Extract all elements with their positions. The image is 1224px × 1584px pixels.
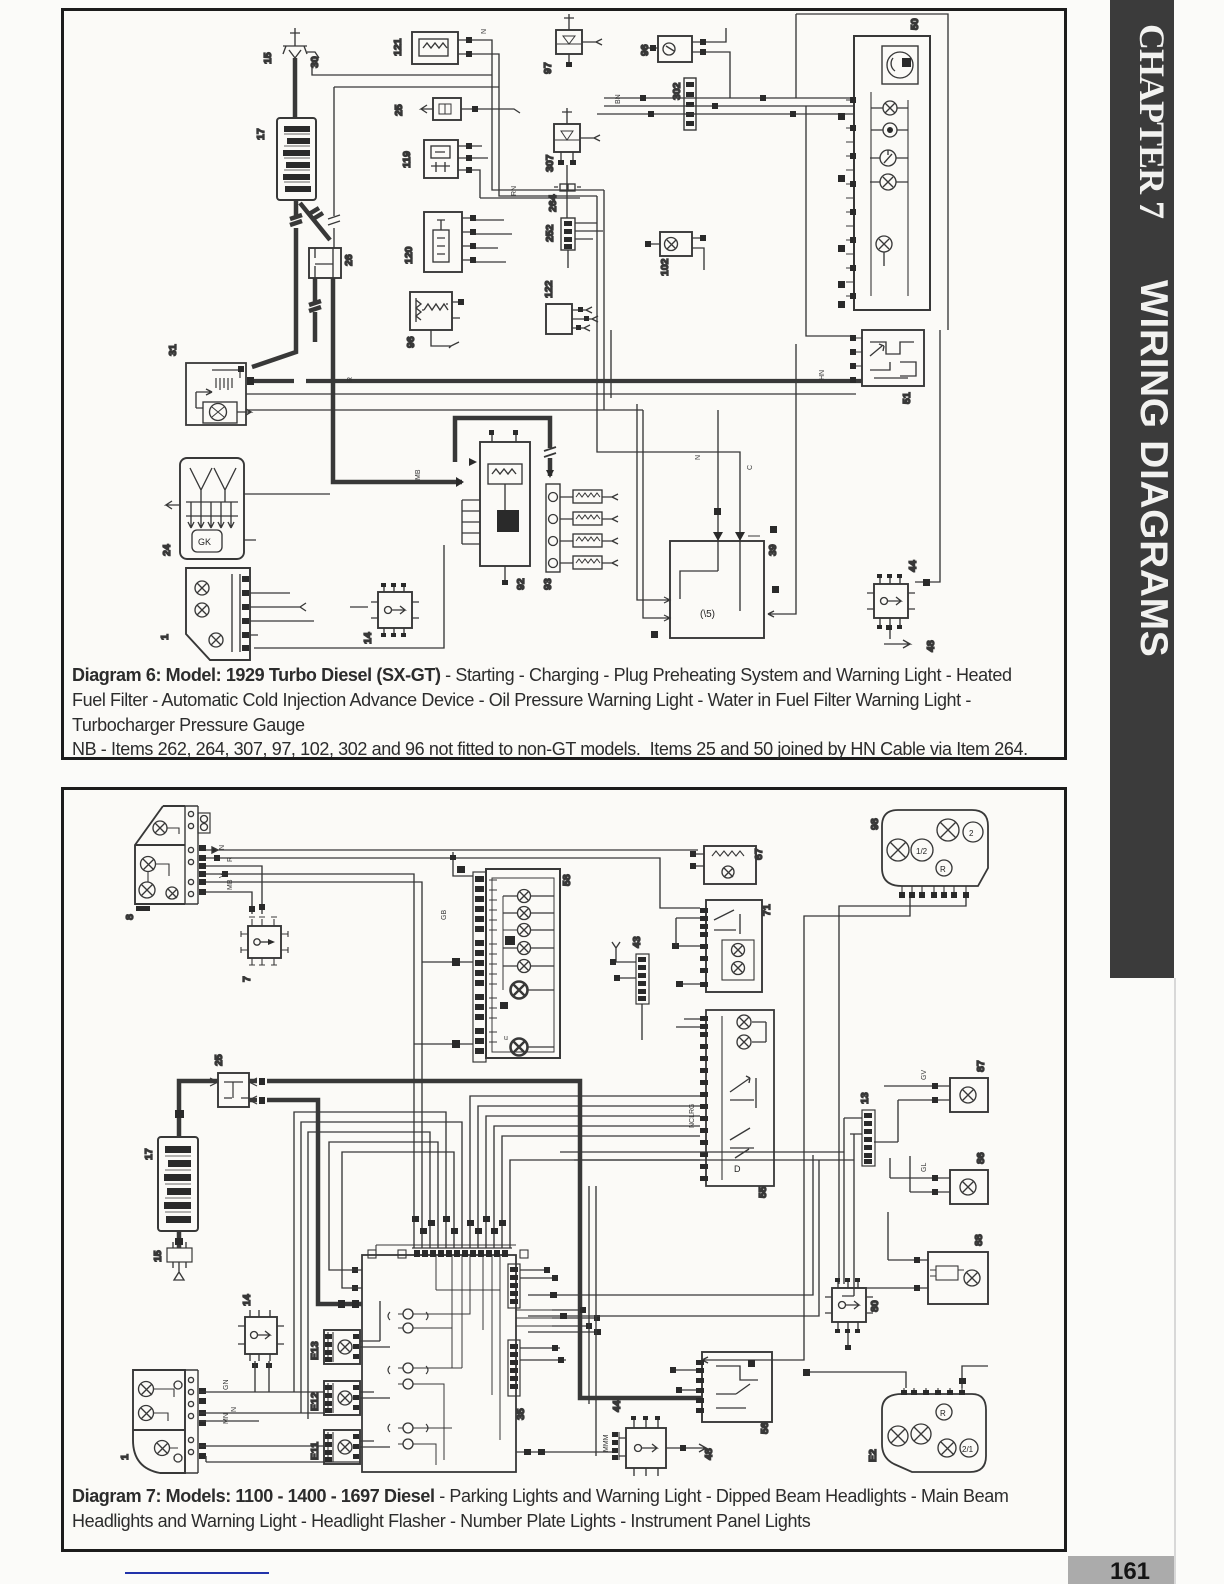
svg-text:14: 14 <box>362 632 374 644</box>
sensor 119 <box>424 140 580 198</box>
resistor 96 <box>410 292 464 348</box>
relay unit 88 <box>839 1212 988 1304</box>
earth arrow 48 <box>884 625 910 648</box>
rear light cluster 1 <box>133 1370 206 1473</box>
svg-text:55: 55 <box>757 1186 769 1198</box>
svg-text:GN: GN <box>223 1380 230 1391</box>
dip lamp 86 <box>890 1156 988 1204</box>
svg-text:N: N <box>481 29 488 34</box>
thick feed 25 to 35 <box>249 1097 362 1308</box>
svg-text:96: 96 <box>639 44 651 56</box>
instrument panel 58 <box>473 869 560 1062</box>
long cross wires right <box>560 1140 854 1160</box>
wire loop inner <box>806 106 856 336</box>
wire E11 to fuses <box>360 1441 390 1447</box>
wire nest riser 1 <box>294 1112 446 1392</box>
wires into 55 <box>676 1019 700 1128</box>
svg-text:31: 31 <box>167 344 179 356</box>
svg-text:96: 96 <box>405 336 417 348</box>
svg-text:V: V <box>219 873 226 878</box>
wire 122 to 39 <box>597 190 740 541</box>
svg-text:121: 121 <box>392 38 404 56</box>
headlight unit E2 <box>882 1388 986 1472</box>
riser d <box>470 1096 700 1248</box>
glow plug W1 <box>560 490 618 503</box>
svg-text:252: 252 <box>544 224 556 242</box>
svg-text:50: 50 <box>909 18 921 30</box>
svg-text:43: 43 <box>631 936 643 948</box>
relay 121 <box>412 32 472 64</box>
panel inner wire <box>503 896 518 990</box>
bottom diagram box <box>61 787 1067 1552</box>
panel lamp P5 <box>503 960 554 973</box>
svg-text:15: 15 <box>152 1250 164 1262</box>
svg-text:307: 307 <box>544 154 556 172</box>
relay 44 <box>603 1416 666 1476</box>
wire code labels <box>223 1380 238 1425</box>
column switch 55 <box>700 1010 774 1186</box>
instrument lamp 67 <box>690 846 756 884</box>
battery 17 <box>277 118 316 200</box>
wires out right of 35 lower <box>516 1155 819 1455</box>
cluster lamp L2 <box>871 123 908 137</box>
relay 14 <box>238 1310 284 1392</box>
scan edge <box>1174 978 1176 1584</box>
bus wire 3 <box>246 409 643 411</box>
svg-text:120: 120 <box>403 246 415 264</box>
wire 8 to relay 7 <box>206 866 265 914</box>
wire code labels <box>219 845 234 890</box>
panel lamp P1 <box>503 890 554 903</box>
chapter sidebar <box>1110 0 1174 978</box>
wire riser 51 to 44 <box>915 330 940 582</box>
wire 8 to 71 <box>206 855 700 908</box>
svg-text:44: 44 <box>907 560 919 572</box>
wire 26 down <box>309 278 333 342</box>
wire 8 drop A <box>206 871 414 1248</box>
riser g <box>494 1126 700 1248</box>
cluster pins <box>846 97 856 299</box>
diode unit 307 <box>554 108 600 165</box>
wire 8 to relay 7 pin2 <box>206 892 255 914</box>
svg-text:NCLRG: NCLRG <box>689 1103 696 1128</box>
wire battery to 26 <box>290 200 330 256</box>
headlight unit 98 <box>882 810 988 898</box>
wire fuse branch B <box>328 87 499 248</box>
fuse box 35 <box>362 1245 516 1472</box>
svg-text:102: 102 <box>659 258 671 276</box>
svg-text:67: 67 <box>753 848 765 860</box>
connector 252 <box>561 218 603 268</box>
fuse box top connector <box>368 1248 528 1258</box>
svg-text:122: 122 <box>543 280 555 298</box>
svg-text:264: 264 <box>547 194 559 212</box>
panel lamp P3 <box>518 924 555 937</box>
svg-text:HN: HN <box>819 370 826 380</box>
front light cluster 8 <box>135 806 210 911</box>
svg-text:MB: MB <box>227 879 234 890</box>
svg-text:2: 2 <box>969 829 974 838</box>
svg-text:48: 48 <box>925 640 937 652</box>
svg-text:1: 1 <box>159 634 171 640</box>
wire 121 right <box>472 40 604 196</box>
connector E13 <box>324 1330 360 1364</box>
svg-text:25: 25 <box>393 104 405 116</box>
svg-text:N: N <box>695 455 702 460</box>
fuse box inner wires <box>421 1256 500 1465</box>
svg-text:80: 80 <box>869 1300 881 1312</box>
relay 80 <box>825 1278 873 1350</box>
svg-text:48: 48 <box>703 1448 715 1460</box>
wire 1 to 14 <box>250 593 368 621</box>
glow plug W2 <box>560 512 618 525</box>
riser e <box>478 1106 700 1248</box>
glow plug W4 <box>560 556 618 569</box>
svg-text:E12: E12 <box>309 1392 321 1411</box>
connector E11 <box>324 1430 360 1464</box>
thick feed to item 31 <box>252 256 296 367</box>
relay 44 <box>867 574 930 629</box>
wire nest riser 3 <box>308 1132 430 1419</box>
wire E12 to fuses <box>360 1392 390 1398</box>
cluster lamp L4 <box>870 174 908 190</box>
glow plug unit 24 <box>166 458 330 559</box>
svg-text:71: 71 <box>761 904 773 916</box>
svg-text:17: 17 <box>255 128 267 140</box>
svg-text:MN: MN <box>223 1413 230 1424</box>
svg-text:R: R <box>940 1409 946 1418</box>
long verticals mid <box>589 1186 596 1456</box>
fuse box right connectors <box>508 1264 520 1396</box>
svg-text:GV: GV <box>921 1070 928 1080</box>
svg-text:44: 44 <box>611 1400 623 1412</box>
riser h <box>502 1136 700 1248</box>
svg-text:C: C <box>747 465 754 470</box>
svg-text:GL: GL <box>921 1163 928 1172</box>
panel feed mid <box>422 958 473 966</box>
switch unit 71 <box>672 900 762 992</box>
wire 26 to 92 feed <box>333 340 464 487</box>
riser f <box>486 1116 700 1248</box>
relay 14 <box>371 583 419 637</box>
fuse box left pins <box>352 1267 362 1291</box>
panel lamp P2 <box>503 907 554 920</box>
svg-text:1: 1 <box>119 1454 131 1460</box>
svg-text:24: 24 <box>161 544 173 556</box>
panel marker <box>505 936 515 945</box>
wire codes <box>347 29 826 480</box>
svg-text:51: 51 <box>901 392 913 404</box>
nested loop b <box>342 1152 454 1288</box>
svg-text:13: 13 <box>859 1092 871 1104</box>
svg-text:17: 17 <box>143 1148 155 1160</box>
svg-text:E13: E13 <box>309 1341 321 1360</box>
relay unit 51 <box>850 330 924 386</box>
thick feed 25 to right <box>249 1078 702 1398</box>
page number <box>1068 1556 1174 1584</box>
svg-text:7: 7 <box>241 976 253 982</box>
svg-text:88: 88 <box>973 1234 985 1246</box>
svg-text:u: u <box>504 1035 508 1042</box>
blue underline mark <box>125 1572 269 1574</box>
wire riser to 39 <box>768 344 796 617</box>
connector 13 <box>842 1110 875 1296</box>
svg-text:2/1: 2/1 <box>962 1445 974 1454</box>
wire 98 right drop <box>839 898 966 1284</box>
wire riser 39 pin <box>714 410 721 541</box>
svg-text:26: 26 <box>343 254 355 266</box>
wire nest riser 2 <box>301 1122 462 1413</box>
wires out right of 35 upper <box>516 1267 600 1329</box>
svg-text:92: 92 <box>515 578 527 590</box>
cluster feed markers <box>838 113 845 308</box>
svg-text:58: 58 <box>561 874 573 886</box>
riser i <box>510 1160 700 1248</box>
cluster lamp L3 <box>870 150 908 166</box>
svg-text:R: R <box>347 377 354 382</box>
diode 97 <box>556 14 602 67</box>
fuse pair F1 <box>388 1309 428 1333</box>
svg-text:39: 39 <box>767 544 779 556</box>
heater unit 92 <box>462 430 530 585</box>
svg-text:87: 87 <box>975 1060 987 1072</box>
switch 96 <box>648 28 730 98</box>
fuse link 15 <box>167 1231 192 1280</box>
wire 1 to connectors <box>199 1392 360 1462</box>
main bus wire <box>247 377 862 385</box>
svg-text:GB: GB <box>441 910 448 920</box>
panel feed low <box>414 1040 473 1048</box>
bus wire 2 <box>246 393 856 395</box>
fuse pair F3 <box>388 1423 428 1449</box>
svg-text:1/2: 1/2 <box>916 847 928 856</box>
svg-text:56: 56 <box>759 1422 771 1434</box>
thick loop to 92 <box>455 418 556 478</box>
connector 43 <box>610 942 649 1040</box>
cluster lamp L1 <box>871 101 908 115</box>
panel lamp P6 <box>500 982 554 1010</box>
svg-text:MB: MB <box>415 469 422 480</box>
top diagram box <box>61 8 1067 760</box>
switch 25 <box>421 98 520 120</box>
flasher unit 56 <box>670 1352 772 1422</box>
svg-text:97: 97 <box>542 62 554 74</box>
bus wires to cluster <box>597 95 854 117</box>
panel feed top <box>450 852 473 876</box>
wire 98 left drop <box>702 898 910 1363</box>
svg-text:R: R <box>227 857 234 862</box>
svg-text:D: D <box>734 1164 741 1174</box>
svg-text:E11: E11 <box>309 1442 321 1460</box>
panel lamp P7 <box>504 1035 554 1056</box>
svg-text:N: N <box>231 1407 238 1412</box>
svg-text:GK: GK <box>198 537 211 547</box>
svg-text:14: 14 <box>241 1294 253 1306</box>
svg-text:30: 30 <box>309 56 321 68</box>
sensor 120 <box>424 212 512 272</box>
starter motor 1 <box>186 568 250 660</box>
wire to 39 left <box>637 404 661 618</box>
svg-text:(\5): (\5) <box>700 609 715 620</box>
control unit 31 <box>186 363 251 425</box>
svg-text:MMM: MMM <box>603 1434 610 1452</box>
svg-text:119: 119 <box>401 151 413 168</box>
relay 26 <box>309 248 341 278</box>
earth arrow 48 <box>666 1444 706 1452</box>
svg-text:BN: BN <box>615 94 622 104</box>
wire lower run <box>250 545 444 648</box>
control box 122 <box>546 304 598 334</box>
svg-text:E2: E2 <box>867 1449 879 1462</box>
glow plug W3 <box>560 534 618 547</box>
relay 7 <box>241 917 288 965</box>
dip lamp 87 <box>874 1070 988 1142</box>
wire code markers <box>412 1216 506 1234</box>
svg-text:98: 98 <box>869 818 881 830</box>
wire loop outer <box>796 14 948 330</box>
cluster lamp L5 <box>876 236 892 266</box>
wire E2 feeds <box>803 1366 988 1388</box>
connector 302 <box>684 78 696 130</box>
relay box 39 <box>651 526 779 638</box>
svg-text:93: 93 <box>542 578 554 590</box>
wire fuse branch A <box>312 66 492 75</box>
connector E12 <box>324 1381 360 1415</box>
svg-text:R: R <box>940 865 946 874</box>
svg-text:RN: RN <box>511 186 518 196</box>
lighting switch 25 <box>210 1073 257 1107</box>
wire 8 to 67 <box>206 847 698 853</box>
svg-text:35: 35 <box>515 1408 527 1420</box>
fuse pair F2 <box>388 1363 428 1389</box>
wire E13 to fuses <box>360 1301 390 1347</box>
battery 17 <box>158 1137 198 1231</box>
fuse 15 <box>283 28 319 118</box>
svg-text:N: N <box>219 845 226 850</box>
svg-text:15: 15 <box>262 52 274 64</box>
warning lamp 102 <box>645 232 706 270</box>
svg-text:86: 86 <box>975 1152 987 1164</box>
svg-text:25: 25 <box>213 1054 225 1066</box>
svg-text:8: 8 <box>124 914 136 920</box>
connector 264 <box>554 165 581 218</box>
nested loop a <box>329 1142 438 1270</box>
instrument cluster 50 <box>854 36 930 310</box>
battery junction <box>175 1110 184 1118</box>
panel lamp P4 <box>503 942 554 955</box>
connector 93 <box>546 484 560 572</box>
thick feed battery to 25 <box>179 1081 218 1136</box>
wire 8 drop B <box>206 882 422 1248</box>
